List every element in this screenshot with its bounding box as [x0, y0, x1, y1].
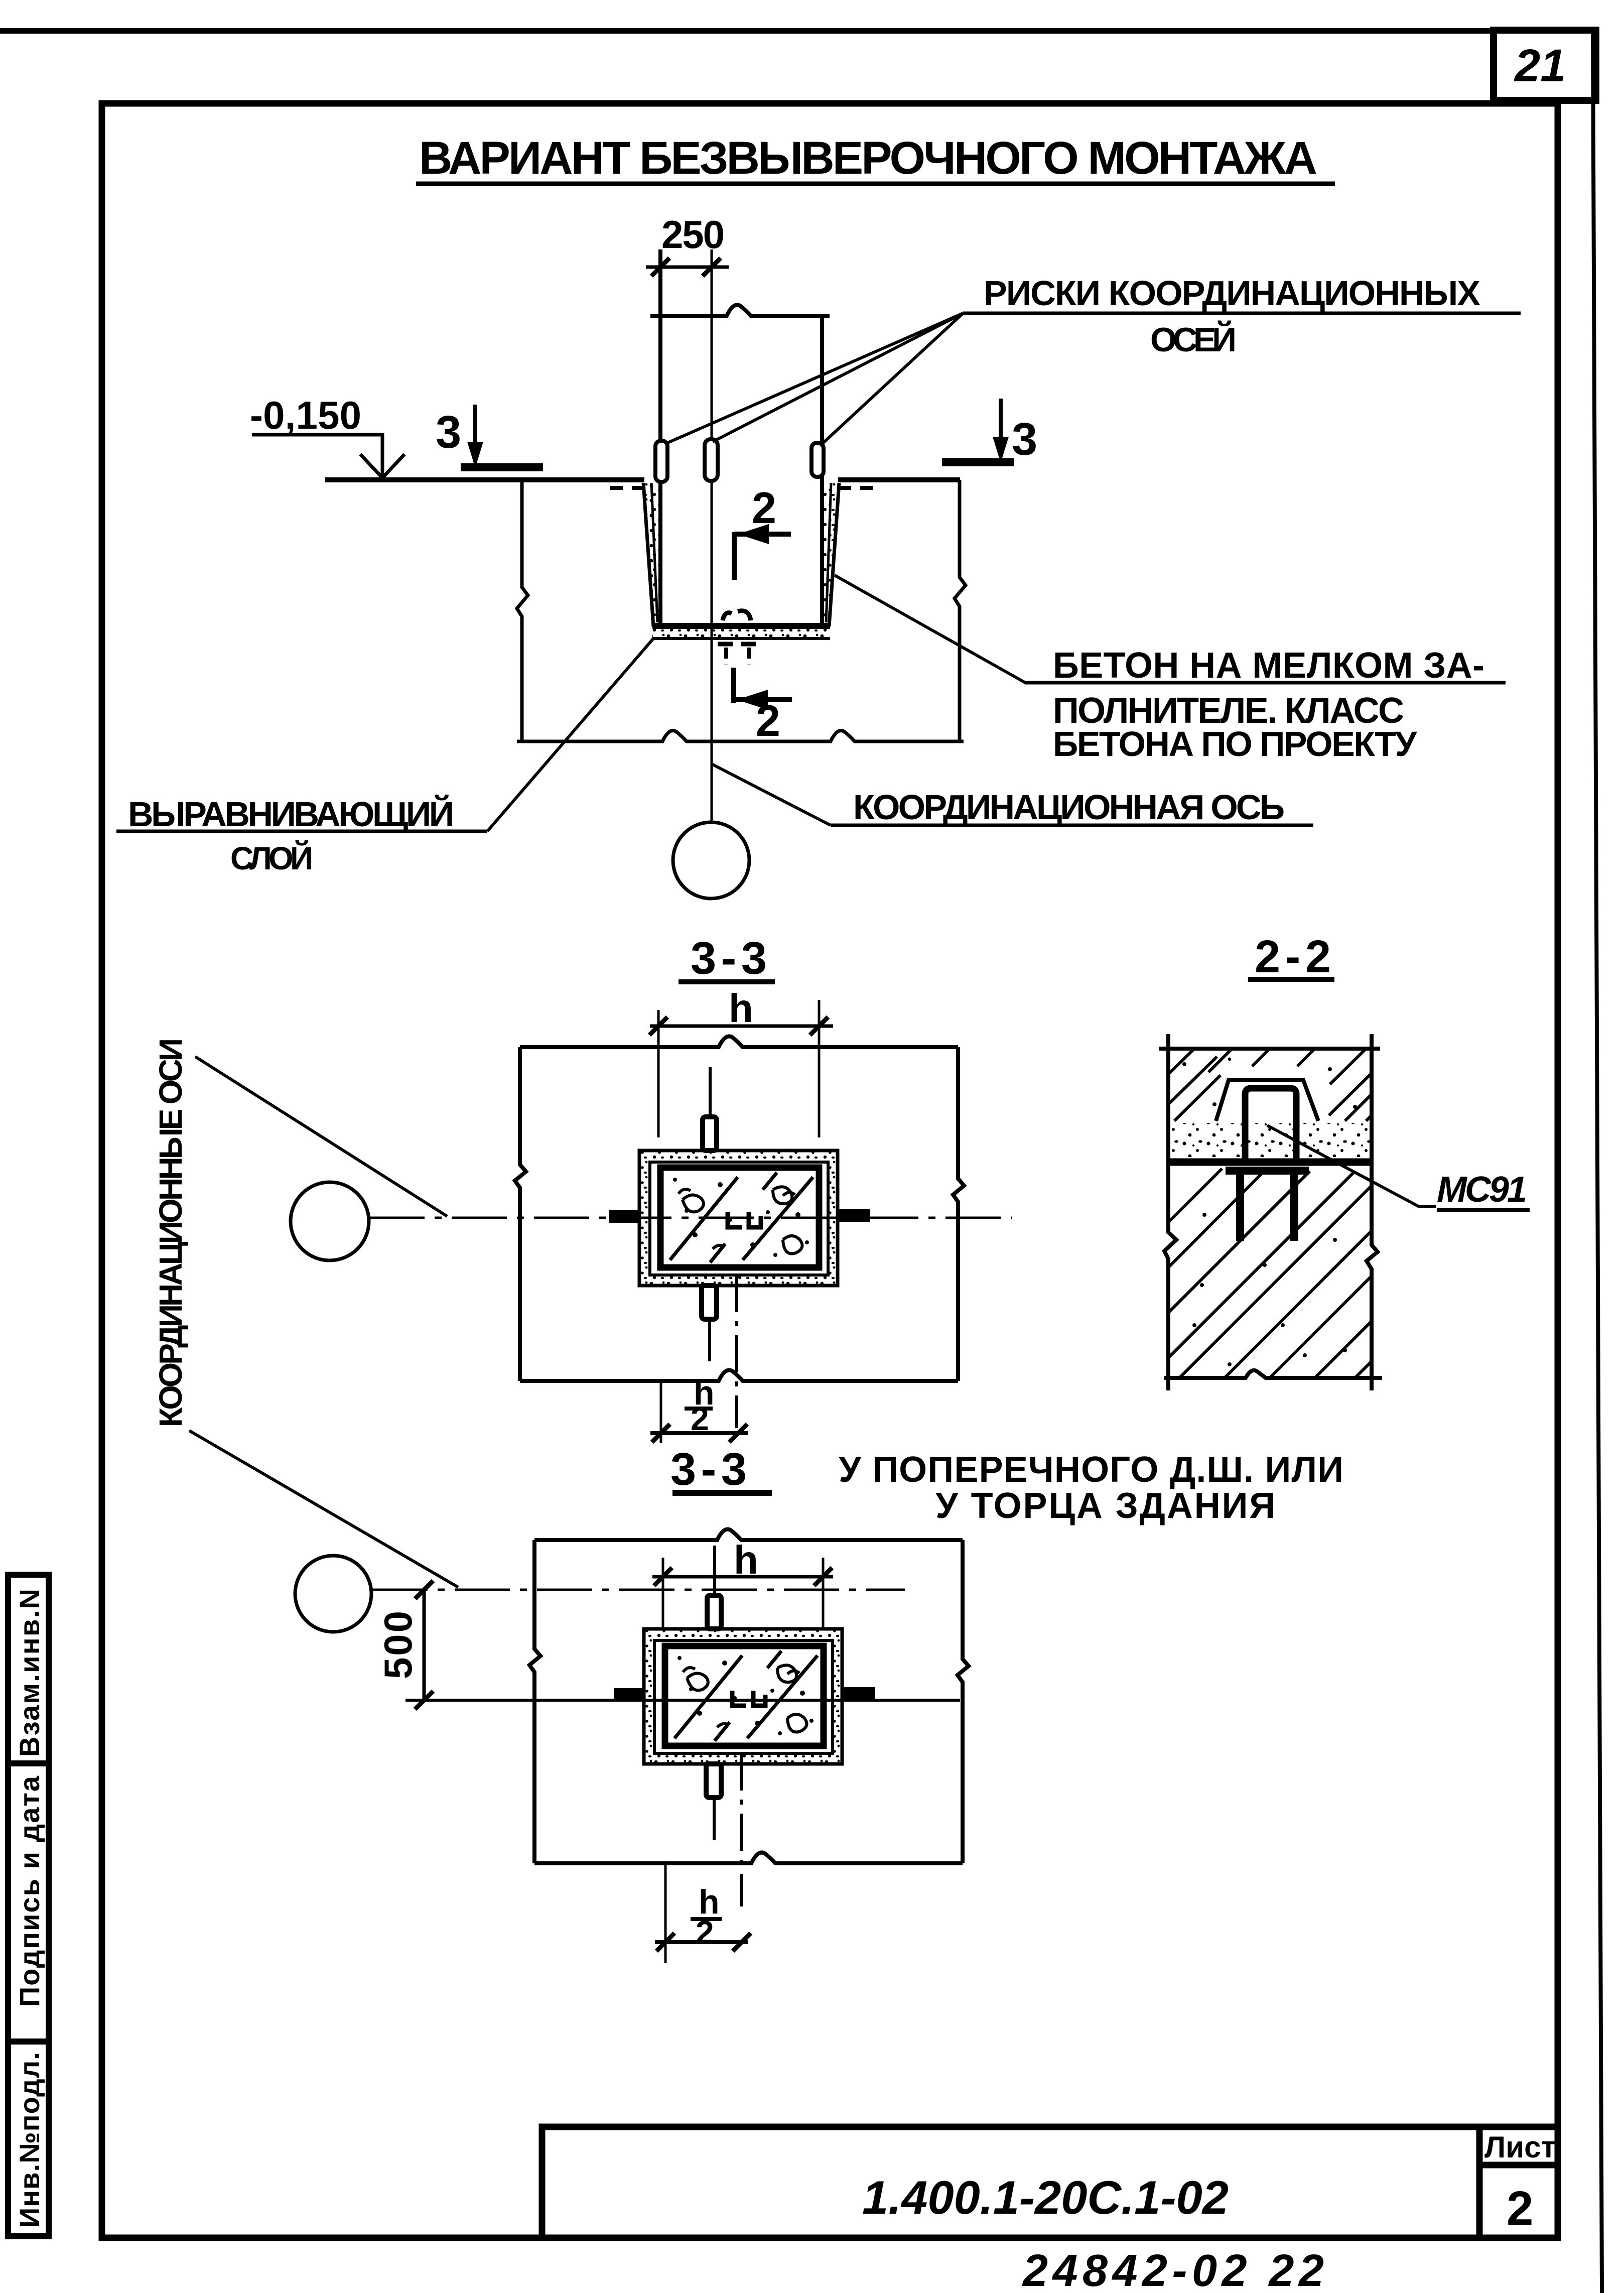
- svg-text:3-3: 3-3: [691, 933, 767, 984]
- block bottom edge with break: [1164, 1370, 1382, 1378]
- socket right inner face: [826, 483, 831, 622]
- divider Vzam/Podpis: [8, 1760, 49, 1766]
- label column box: [8, 1575, 49, 2236]
- upper band stipple: [1182, 1062, 1186, 1066]
- anchor plate: [1226, 1167, 1309, 1175]
- riska bottom: [702, 1286, 717, 1319]
- section mark 2 lower: arrowhead: [737, 690, 768, 710]
- extension left: [660, 1381, 662, 1443]
- level mark arrowhead: [360, 454, 404, 478]
- lower concrete hatch: [1168, 1169, 1372, 1378]
- column block (plan) reuse: [614, 1546, 875, 1906]
- leader MC91: [1267, 1125, 1436, 1207]
- column left face: [658, 249, 662, 625]
- ticks: [656, 1933, 674, 1951]
- concrete texture blobs: [683, 1187, 802, 1253]
- tick left: [649, 1017, 667, 1035]
- page number box "21": [1494, 30, 1596, 100]
- extension left: [664, 1863, 667, 1963]
- extension line right: [818, 1000, 821, 1137]
- section mark 3 left: shaft: [473, 405, 477, 462]
- block top edge: [1159, 1047, 1380, 1051]
- riska leader lines: [665, 313, 963, 444]
- socket left wall outer (slanted, stippled): [643, 483, 660, 626]
- socket bottom liner: [652, 623, 830, 629]
- section mark 3 left: bar: [461, 463, 543, 471]
- svg-text:21: 21: [1514, 40, 1566, 91]
- Лист box divider vertical: [1476, 2127, 1483, 2238]
- svg-text:ВЫРАВНИВАЮЩИЙ: ВЫРАВНИВАЮЩИЙ: [128, 794, 454, 834]
- axis circle: [295, 1556, 371, 1632]
- level mark flag: [252, 435, 382, 476]
- foundation left edge: [517, 480, 528, 742]
- block left edge with break: [1164, 1034, 1176, 1390]
- axis stub below: [708, 1319, 711, 1361]
- riska top: [703, 1117, 717, 1151]
- riska left (paint mark): [655, 441, 667, 482]
- section mark 3 right: bar: [942, 458, 1014, 466]
- sheet outer top border: [0, 28, 1498, 34]
- dim line h/2: [650, 1431, 748, 1435]
- column right face: [820, 314, 824, 625]
- coordination axis vertical: [711, 249, 713, 821]
- section mark 2 lower: shaft: [731, 668, 736, 703]
- hidden anchor marks above socket bottom: [723, 611, 751, 620]
- svg-text:500: 500: [376, 1611, 420, 1679]
- dim line 250: [646, 266, 729, 269]
- title block outline: [542, 2127, 1558, 2238]
- leader from label to axis: [195, 1057, 447, 1216]
- ground line right: [838, 477, 960, 482]
- svg-text:3: 3: [436, 407, 461, 458]
- leader to axis: [712, 764, 831, 825]
- dim 500 vertical line: [423, 1590, 426, 1700]
- svg-text:2: 2: [752, 483, 776, 533]
- svg-text:3: 3: [1012, 414, 1037, 465]
- foundation plan outline (broken rectangle): [534, 1529, 963, 1540]
- socket outer rect: [639, 1151, 838, 1286]
- svg-text:2: 2: [756, 696, 780, 745]
- ticks: [415, 1581, 433, 1599]
- svg-text:ОСЕЙ: ОСЕЙ: [1150, 320, 1237, 359]
- section mark 3 right: arrowhead: [993, 437, 1009, 463]
- svg-text:КООРДИНАЦИОННАЯ ОСЬ: КООРДИНАЦИОННАЯ ОСЬ: [853, 788, 1285, 827]
- divider Podpis/Inv: [8, 2039, 49, 2045]
- dim line h/2: [655, 1940, 748, 1944]
- svg-text:250: 250: [661, 212, 725, 257]
- ground line left: [325, 477, 644, 482]
- hidden mouth edge dashes left: [610, 486, 644, 490]
- bolt U-channel MC91: [1245, 1088, 1296, 1159]
- column outline (thick): [660, 1168, 819, 1267]
- svg-text:2: 2: [696, 1914, 714, 1951]
- riska right (filled): [837, 1209, 870, 1222]
- lower concrete stipple: [1202, 1213, 1206, 1217]
- hidden anchor plate (dashed): [718, 642, 761, 647]
- column top break line: [650, 305, 830, 316]
- svg-text:3-3: 3-3: [670, 1444, 747, 1495]
- svg-text:Лист: Лист: [1484, 2130, 1556, 2164]
- axis stub above: [709, 1067, 712, 1117]
- svg-text:1.400.1-20C.1-02: 1.400.1-20C.1-02: [862, 2171, 1229, 2224]
- axis line horizontal (dash-dot): [369, 1217, 1012, 1219]
- svg-text:Инв.№подл.: Инв.№подл.: [14, 2052, 45, 2228]
- dim line h: [650, 1025, 833, 1028]
- svg-text:-0,150: -0,150: [250, 393, 361, 437]
- extension line left: [657, 1010, 660, 1137]
- mortar band: [1170, 1123, 1370, 1157]
- anchor leg right: [1290, 1175, 1298, 1241]
- ticks: [652, 1424, 670, 1442]
- svg-text:БЕТОНА ПО ПРОЕКТУ: БЕТОНА ПО ПРОЕКТУ: [1053, 724, 1417, 763]
- leader to socket wall: [835, 575, 1025, 683]
- block right edge with break: [1367, 1034, 1378, 1390]
- socket right wall outer (slanted, stippled): [822, 483, 839, 626]
- sheet outer right border: [1591, 31, 1604, 2293]
- column center line horizontal: [405, 1699, 960, 1702]
- leveling layer under socket: [652, 629, 830, 638]
- svg-text:МС91: МС91: [1437, 1170, 1527, 1210]
- section mark 3 right: shaft: [999, 399, 1003, 457]
- svg-text:24842-02 22: 24842-02 22: [1022, 2246, 1324, 2293]
- tick left: [651, 258, 669, 276]
- socket form trapezoid: [1216, 1080, 1318, 1121]
- axis line horizontal (dash-dot): [372, 1589, 905, 1591]
- svg-text:БЕТОН НА МЕЛКОМ ЗА-: БЕТОН НА МЕЛКОМ ЗА-: [1053, 646, 1484, 686]
- section mark 2 upper: bar: [734, 532, 791, 537]
- riska left (filled): [609, 1210, 640, 1223]
- section mark 2 upper: shaft: [732, 532, 737, 580]
- svg-text:Подпись и дата: Подпись и дата: [14, 1775, 45, 2007]
- svg-text:2: 2: [1507, 2182, 1533, 2235]
- foundation bottom break line: [517, 730, 964, 741]
- hidden anchor legs (dashed): [724, 648, 728, 665]
- svg-text:СЛОЙ: СЛОЙ: [230, 840, 313, 876]
- svg-text:h: h: [729, 986, 753, 1031]
- upper concrete band hatch: [1168, 1049, 1372, 1121]
- riska right (paint mark): [811, 443, 824, 477]
- anchor leg left: [1236, 1175, 1244, 1241]
- svg-text:У ТОРЦА ЗДАНИЯ: У ТОРЦА ЗДАНИЯ: [935, 1486, 1275, 1526]
- hidden mouth edge dashes right: [838, 486, 873, 490]
- liner mark (dashes) in center: [728, 1212, 761, 1227]
- svg-text:2-2: 2-2: [1255, 931, 1331, 982]
- foundation right edge: [955, 480, 966, 742]
- main title: [416, 133, 1335, 184]
- section mark 2 lower: bar: [732, 697, 792, 702]
- column centerline (dash-dot) below: [735, 1275, 738, 1428]
- column block (plan): [609, 1067, 870, 1428]
- mortar band bottom thick line: [1168, 1159, 1372, 1166]
- axis bubble circle: [673, 822, 749, 899]
- leader from label to bottom axis: [189, 1431, 458, 1587]
- svg-text:Взам.инв.N: Взам.инв.N: [14, 1589, 45, 1757]
- socket left inner face: [651, 483, 657, 622]
- leader to leveling layer: [487, 639, 653, 831]
- socket inner rect: [650, 1162, 828, 1275]
- section mark 3 left: arrowhead: [467, 442, 483, 468]
- svg-text:РИСКИ КООРДИНАЦИОННЫХ: РИСКИ КООРДИНАЦИОННЫХ: [984, 274, 1480, 313]
- axis circle: [291, 1182, 369, 1260]
- concrete diagonals: [670, 1173, 813, 1262]
- section mark 2 upper: arrowhead: [738, 524, 769, 544]
- stipple band: [639, 1151, 838, 1286]
- svg-text:КООРДИНАЦИОННЫЕ ОСИ: КООРДИНАЦИОННЫЕ ОСИ: [153, 1038, 189, 1427]
- tick right: [703, 258, 721, 276]
- svg-text:У ПОПЕРЕЧНОГО Д.Ш. ИЛИ: У ПОПЕРЕЧНОГО Д.Ш. ИЛИ: [839, 1450, 1343, 1490]
- Лист box divider horizontal: [1479, 2162, 1558, 2169]
- tick right: [810, 1017, 828, 1035]
- riska axis (paint mark): [705, 439, 718, 481]
- foundation plan outline (broken rectangle): [520, 1036, 958, 1047]
- svg-text:ВАРИАНТ БЕЗВЫВЕРОЧНОГО МОНТА: ВАРИАНТ БЕЗВЫВЕРОЧНОГО МОНТАЖА: [419, 133, 1317, 184]
- left margin label column: [8, 1575, 49, 2236]
- ticks: [654, 1568, 672, 1586]
- extension lines: [662, 1558, 664, 1628]
- dim line h: [652, 1575, 833, 1579]
